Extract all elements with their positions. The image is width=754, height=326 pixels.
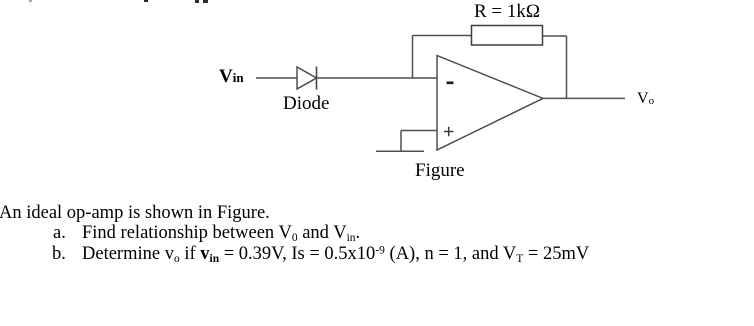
wire: feedback vertical right down to output: [566, 36, 568, 98]
wire: resistor to right vertical: [543, 35, 567, 37]
label R = 1kΩ: [474, 2, 540, 21]
label Vin: [219, 67, 244, 86]
label Diode: [283, 94, 329, 113]
wire: Vin input lead: [256, 77, 297, 79]
wire: non-inverting input lead: [401, 130, 437, 132]
op-amp non-inverting input plus sign: [444, 127, 454, 137]
ground reference line: [376, 150, 424, 152]
op-amp U1 triangle: [437, 56, 543, 151]
wire: output lead: [543, 97, 625, 99]
problem text line 1: [0, 204, 270, 223]
wire: diode to inverting input: [317, 77, 438, 79]
resistor R body: [472, 26, 543, 46]
label Figure: [415, 161, 465, 180]
diode D cathode bar: [316, 67, 318, 90]
label Vo: [637, 91, 654, 107]
text fragment: cut-off descenders of previous line: [29, 0, 32, 2]
problem text item a: [53, 224, 66, 243]
wire: feedback horizontal to resistor: [413, 35, 472, 37]
problem text item b: [52, 245, 66, 264]
diode D (anode triangle): [297, 67, 317, 89]
wire: ground drop vertical: [400, 131, 402, 152]
op-amp inverting input minus sign: [447, 82, 454, 85]
wire: feedback vertical left: [412, 36, 414, 79]
